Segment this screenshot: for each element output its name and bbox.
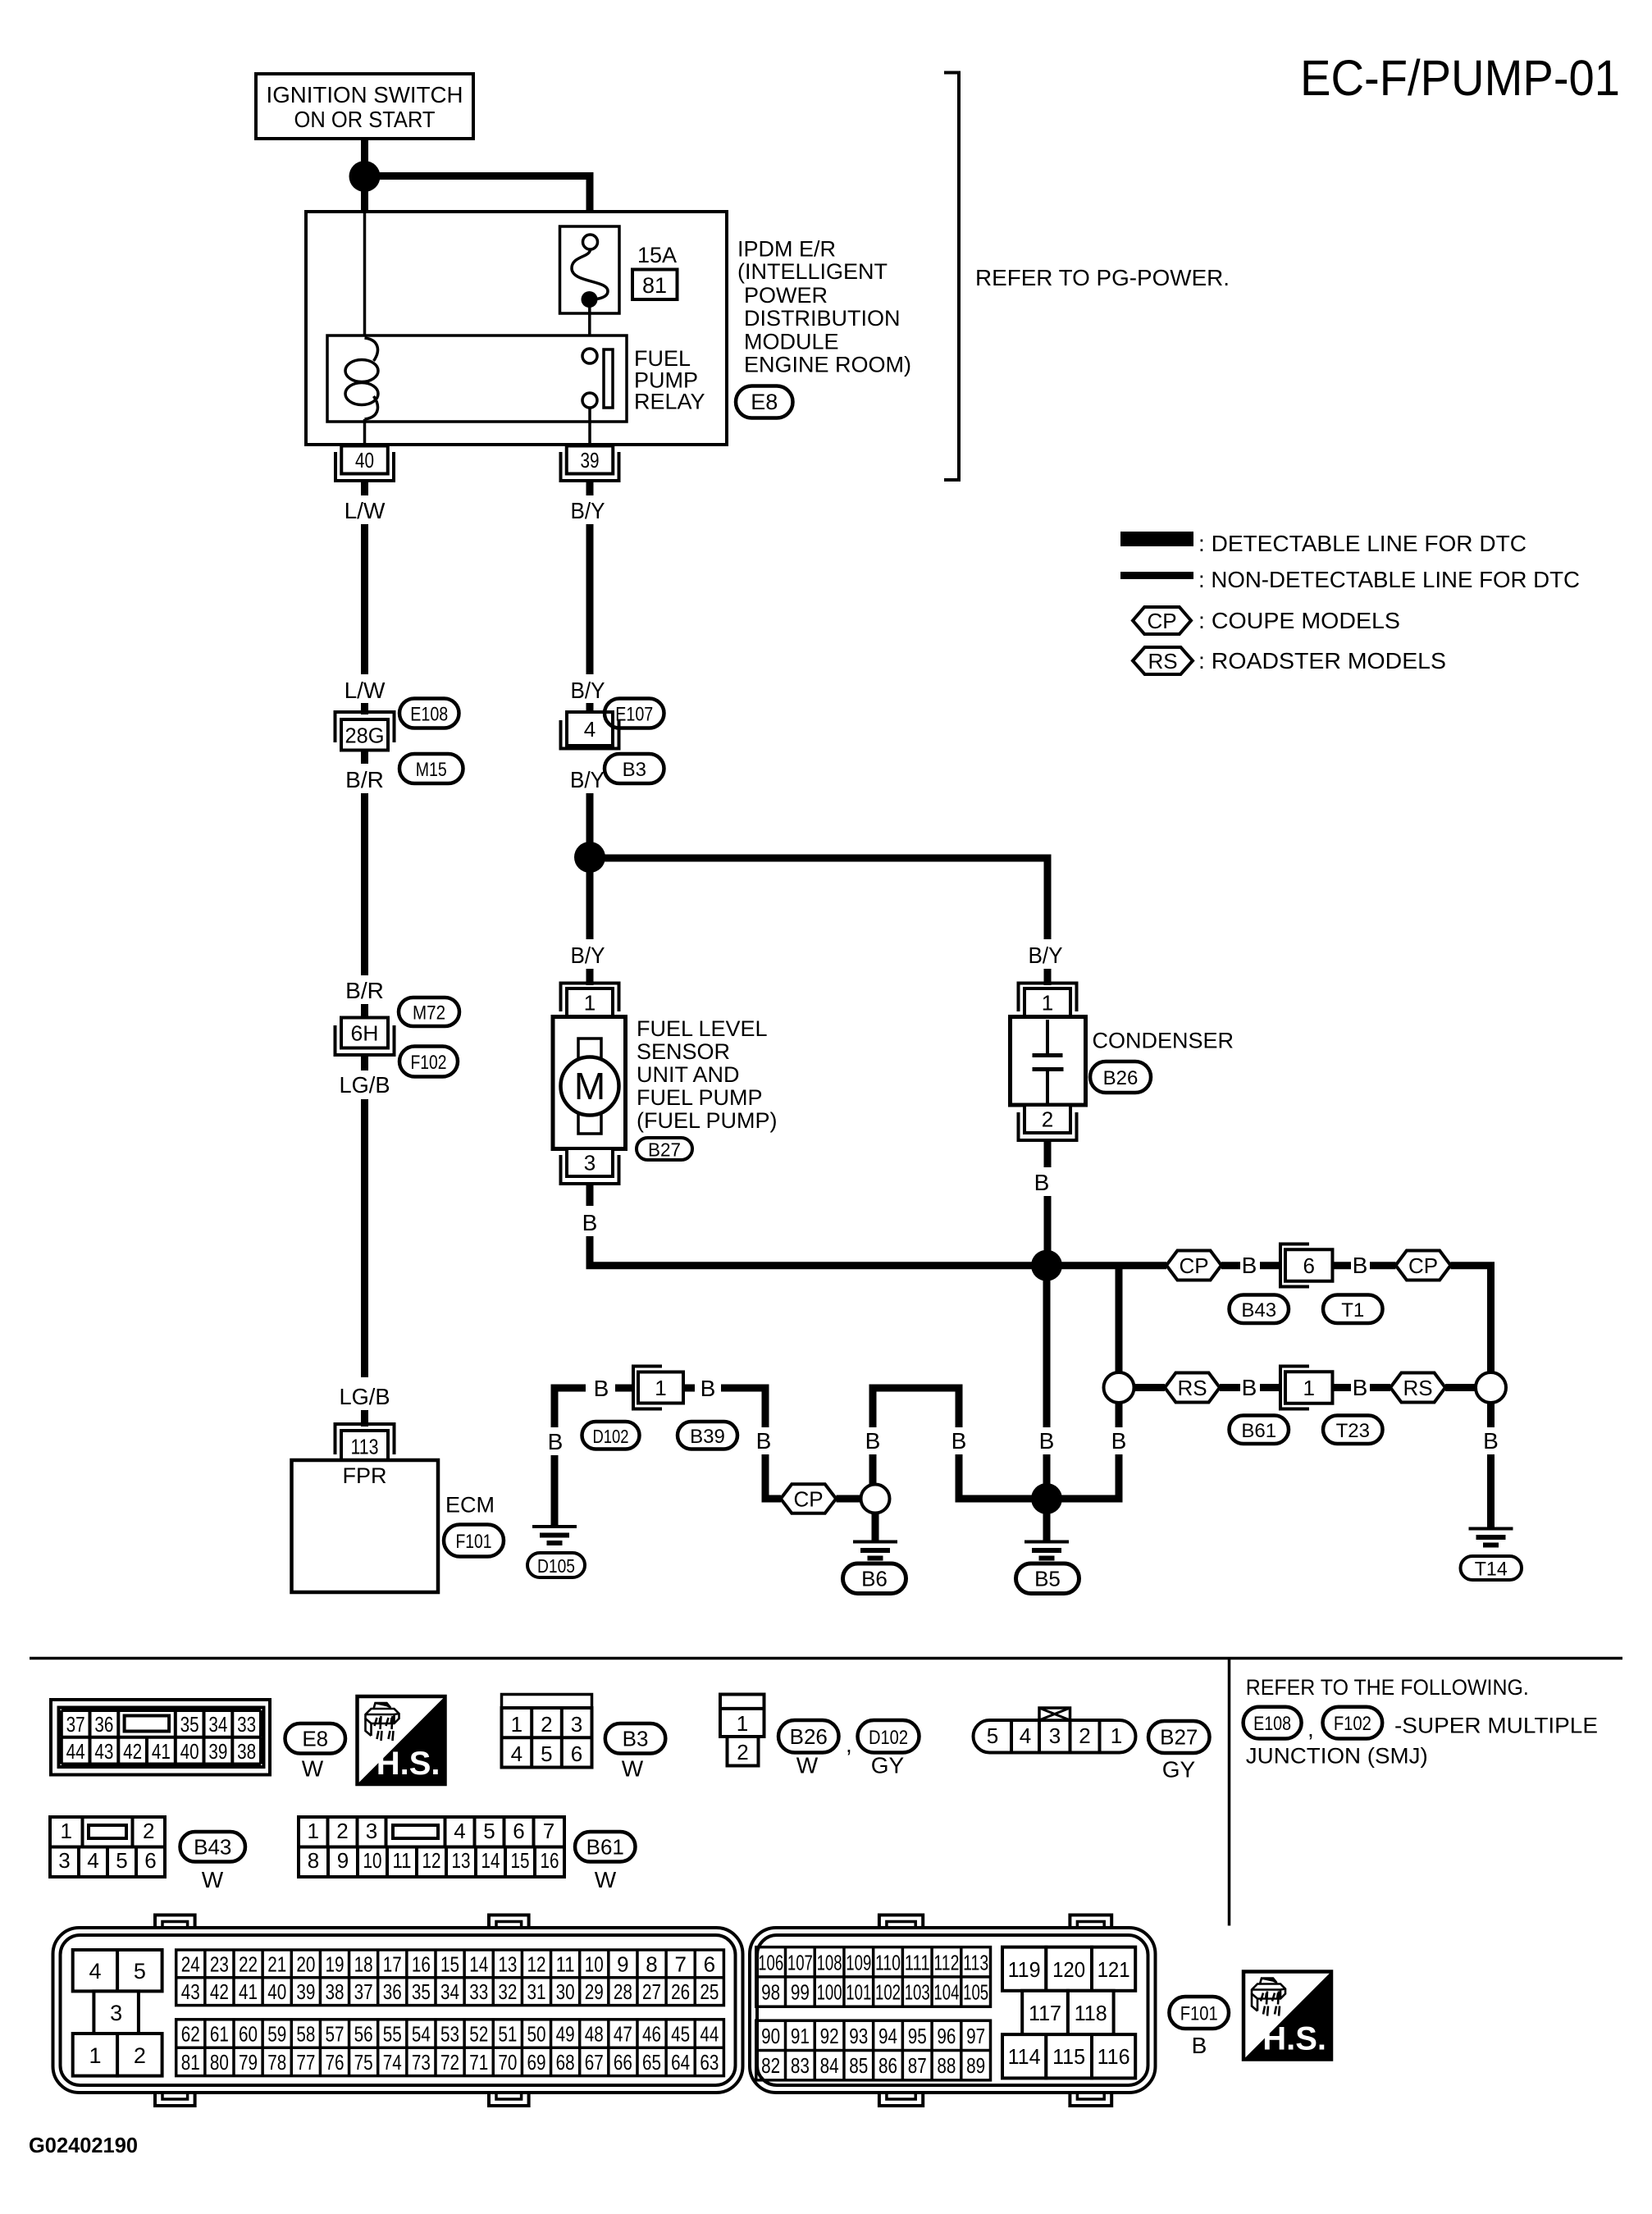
svg-text:2: 2	[541, 1712, 552, 1737]
svg-text:12: 12	[422, 1848, 441, 1873]
condenser body	[1011, 1017, 1086, 1106]
node junction dot B/Y	[574, 842, 605, 873]
svg-text:3: 3	[366, 1819, 377, 1843]
wire B to pin 6	[1260, 1262, 1281, 1269]
wire RS hexagon to B	[1220, 1384, 1240, 1391]
svg-text:57: 57	[325, 2022, 344, 2047]
svg-text:58: 58	[296, 2022, 315, 2047]
wire junction down into IPDM	[361, 190, 368, 213]
svg-text:POWER: POWER	[744, 283, 828, 308]
svg-text:B61: B61	[586, 1834, 624, 1859]
svg-text:15A: 15A	[637, 243, 677, 267]
svg-text:53: 53	[440, 2022, 459, 2047]
svg-text:2: 2	[336, 1819, 348, 1843]
svg-text:B: B	[1039, 1428, 1055, 1454]
svg-text:89: 89	[966, 2053, 985, 2078]
svg-text:B5: B5	[1034, 1566, 1061, 1591]
wire B/R vertical	[361, 793, 368, 975]
svg-text:13: 13	[452, 1848, 471, 1873]
svg-text:DISTRIBUTION: DISTRIBUTION	[744, 306, 901, 331]
wire RS left circle to RS hexagon	[1134, 1384, 1166, 1391]
svg-text:5: 5	[483, 1819, 495, 1843]
svg-text:11: 11	[556, 1952, 575, 1976]
svg-text:D102: D102	[869, 1727, 908, 1749]
motor M circle	[561, 1057, 619, 1116]
node splice circle RS left	[1104, 1372, 1134, 1403]
wire down to T14 ground	[1487, 1454, 1495, 1528]
svg-text:41: 41	[152, 1739, 171, 1764]
svg-text:L/W: L/W	[345, 678, 386, 703]
svg-text:20: 20	[296, 1952, 315, 1976]
wire into ECM pin 113	[361, 1410, 368, 1427]
wire CP right to corner down	[1451, 1266, 1491, 1374]
svg-text:45: 45	[671, 2022, 690, 2047]
svg-text:B26: B26	[1103, 1067, 1139, 1089]
wire to B5 dot	[1043, 1454, 1051, 1485]
legend non-detectable line sample	[1120, 572, 1193, 579]
pin 2 of condenser	[1025, 1105, 1070, 1133]
svg-text:L/W: L/W	[345, 498, 386, 523]
wire CP branch down to RS circle	[1116, 1266, 1123, 1374]
connector M72/F102 6H	[341, 1018, 388, 1048]
connector oval E107	[605, 699, 664, 728]
ECM pin grid 24-6 43-25	[176, 1950, 724, 2006]
ground oval B5	[1016, 1563, 1079, 1594]
svg-text:32: 32	[498, 1979, 517, 2004]
connector oval B3	[605, 754, 664, 783]
svg-text:109: 109	[846, 1950, 871, 1974]
svg-text:39: 39	[581, 448, 600, 472]
svg-text:5: 5	[987, 1723, 998, 1748]
svg-text:1: 1	[1042, 991, 1053, 1016]
hexagon CP left	[1166, 1251, 1221, 1280]
svg-text:31: 31	[527, 1979, 545, 2004]
svg-text:B61: B61	[1241, 1420, 1276, 1442]
wire RS left circle down	[1116, 1403, 1123, 1427]
connector face E8	[51, 1700, 270, 1775]
wire down to D105 ground	[551, 1455, 559, 1526]
svg-text:UNIT AND: UNIT AND	[637, 1062, 740, 1087]
svg-text:48: 48	[585, 2022, 604, 2047]
svg-text:B: B	[1483, 1428, 1499, 1454]
svg-text:41: 41	[239, 1979, 258, 2004]
wire into connector 6H	[361, 1004, 368, 1019]
svg-text:1: 1	[511, 1712, 523, 1737]
wire into pump pin 1	[586, 969, 594, 985]
connector oval B43	[1230, 1295, 1289, 1324]
svg-text:113: 113	[351, 1435, 379, 1459]
legend CP hexagon	[1133, 607, 1191, 634]
svg-text:H.S.: H.S.	[1262, 2021, 1326, 2057]
svg-text:6: 6	[513, 1819, 524, 1843]
connector oval T1	[1323, 1295, 1383, 1324]
svg-text:79: 79	[239, 2050, 258, 2075]
svg-text:86: 86	[878, 2053, 897, 2078]
svg-text:64: 64	[671, 2050, 690, 2075]
svg-text:2: 2	[1079, 1723, 1090, 1748]
svg-text:ON OR START: ON OR START	[294, 107, 436, 132]
svg-text:28: 28	[614, 1979, 632, 2004]
svg-text:FUEL: FUEL	[634, 346, 691, 371]
svg-text:26: 26	[671, 1979, 690, 2004]
svg-text:9: 9	[617, 1952, 628, 1976]
svg-text:B: B	[756, 1428, 772, 1454]
svg-text:1: 1	[655, 1376, 666, 1400]
svg-text:B: B	[1111, 1428, 1127, 1454]
svg-text:85: 85	[849, 2053, 868, 2078]
svg-text:6: 6	[571, 1742, 582, 1766]
connector face B3	[502, 1695, 592, 1709]
svg-text:1: 1	[737, 1711, 748, 1736]
svg-text:110: 110	[875, 1950, 901, 1974]
svg-text:42: 42	[123, 1739, 142, 1764]
wire B5 dot to ground	[1043, 1513, 1051, 1541]
fuel pump brush upper	[578, 1039, 601, 1065]
svg-text:69: 69	[527, 2050, 545, 2075]
svg-text:E108: E108	[410, 704, 448, 726]
svg-text:F102: F102	[411, 1052, 447, 1074]
pin 6 connector B43/T1	[1280, 1244, 1309, 1287]
svg-text:B43: B43	[194, 1834, 231, 1859]
ground oval D105	[527, 1553, 585, 1577]
svg-text:B26: B26	[790, 1724, 828, 1749]
svg-text:78: 78	[267, 2050, 286, 2075]
ground B5	[1025, 1541, 1069, 1544]
svg-text:3: 3	[110, 2001, 122, 2025]
svg-text:61: 61	[210, 2022, 229, 2047]
wire L/W vertical	[361, 524, 368, 674]
svg-text:17: 17	[383, 1952, 402, 1976]
svg-text:: DETECTABLE LINE FOR DTC: : DETECTABLE LINE FOR DTC	[1198, 531, 1527, 556]
fuel pump body	[553, 1017, 626, 1149]
wire out of connector 6H	[361, 1055, 368, 1071]
svg-text:44: 44	[700, 2022, 719, 2047]
connector oval B27	[637, 1138, 692, 1160]
connector oval T23	[1323, 1416, 1383, 1445]
connector face B27	[974, 1720, 1136, 1753]
svg-text:E108: E108	[1253, 1713, 1291, 1735]
svg-text:3: 3	[58, 1848, 70, 1873]
svg-text:30: 30	[556, 1979, 575, 2004]
svg-text:38: 38	[237, 1739, 256, 1764]
svg-text:E107: E107	[615, 704, 653, 726]
svg-text:4: 4	[584, 717, 596, 742]
svg-text:B/Y: B/Y	[1029, 943, 1063, 968]
svg-text:CP: CP	[1147, 609, 1176, 633]
connector oval D102 face	[858, 1720, 920, 1753]
divider line right panel	[1228, 1659, 1231, 1926]
svg-text:CP: CP	[1408, 1253, 1438, 1278]
svg-text:12: 12	[527, 1952, 545, 1976]
svg-text:71: 71	[469, 2050, 488, 2075]
svg-text:37: 37	[66, 1712, 85, 1737]
svg-text:LG/B: LG/B	[340, 1072, 390, 1098]
svg-text:5: 5	[541, 1742, 552, 1766]
svg-text:JUNCTION (SMJ): JUNCTION (SMJ)	[1246, 1744, 1428, 1769]
svg-text:RS: RS	[1177, 1376, 1207, 1400]
svg-text:T14: T14	[1475, 1559, 1508, 1581]
wire pin 39 tail	[586, 481, 594, 495]
wire junction to CP branch	[1047, 1262, 1119, 1269]
wire to corner down leg	[721, 1388, 765, 1427]
svg-text:102: 102	[875, 1980, 901, 2005]
svg-text:GY: GY	[871, 1753, 905, 1778]
pin 1 connector D102/B39	[633, 1367, 662, 1409]
connector oval B26 face	[778, 1720, 839, 1753]
ground D105	[532, 1525, 577, 1528]
ECM pin cells 114-121	[1002, 1947, 1046, 1991]
svg-text:18: 18	[354, 1952, 373, 1976]
svg-text:E8: E8	[751, 390, 778, 414]
svg-text:7: 7	[543, 1819, 554, 1843]
svg-text:94: 94	[878, 2024, 897, 2048]
svg-text:104: 104	[933, 1980, 959, 2005]
svg-text:IPDM E/R: IPDM E/R	[737, 237, 836, 262]
svg-text:116: 116	[1098, 2044, 1130, 2069]
svg-text:B/R: B/R	[345, 978, 384, 1003]
wire bridge left leg lower	[869, 1454, 877, 1485]
svg-text:B27: B27	[648, 1139, 681, 1161]
lock tab with X	[1039, 1708, 1070, 1720]
wire B to RS hexagon right	[1370, 1384, 1390, 1391]
wire corner to D105	[554, 1388, 586, 1427]
svg-text:9: 9	[337, 1848, 349, 1873]
svg-text:114: 114	[1008, 2044, 1041, 2069]
svg-text:23: 23	[210, 1952, 229, 1976]
wire condenser pin 2 tail	[1044, 1140, 1052, 1167]
svg-text:39: 39	[296, 1979, 315, 2004]
wire junction down to fuel pump	[586, 871, 594, 939]
svg-text:16: 16	[412, 1952, 431, 1976]
svg-text:(INTELLIGENT: (INTELLIGENT	[737, 259, 888, 284]
svg-text:CP: CP	[1179, 1253, 1208, 1278]
svg-text:RS: RS	[1148, 649, 1177, 673]
svg-text:1: 1	[60, 1819, 71, 1843]
relay coil	[365, 338, 378, 361]
connector oval B3 face	[605, 1723, 666, 1754]
wire to B5 row from loop	[1061, 1454, 1119, 1499]
connector oval F101	[444, 1525, 504, 1557]
pin 1 connector B61/T23	[1280, 1367, 1309, 1409]
svg-text:120: 120	[1052, 1957, 1085, 1982]
svg-text:7: 7	[674, 1952, 686, 1976]
svg-text:W: W	[595, 1867, 617, 1892]
svg-text:119: 119	[1008, 1957, 1041, 1982]
svg-text:SENSOR: SENSOR	[637, 1039, 730, 1064]
connector oval B39	[678, 1422, 737, 1449]
svg-text:3: 3	[1049, 1723, 1061, 1748]
svg-text:B3: B3	[623, 1726, 649, 1751]
svg-text:B: B	[951, 1428, 967, 1454]
svg-text:E8: E8	[302, 1726, 328, 1751]
svg-text:B: B	[1192, 2033, 1207, 2058]
svg-text:6: 6	[704, 1952, 715, 1976]
svg-text:16: 16	[541, 1848, 559, 1873]
svg-text:52: 52	[469, 2022, 488, 2047]
svg-text:47: 47	[614, 2022, 632, 2047]
svg-text:8: 8	[308, 1848, 319, 1873]
svg-text:FUEL LEVEL: FUEL LEVEL	[637, 1016, 768, 1041]
connector E108/M15 28G	[335, 712, 395, 742]
svg-text:: ROADSTER MODELS: : ROADSTER MODELS	[1198, 648, 1446, 673]
svg-text:75: 75	[354, 2050, 373, 2075]
svg-text:19: 19	[325, 1952, 344, 1976]
wire leg to CP hexagon	[765, 1454, 781, 1499]
svg-text:36: 36	[94, 1712, 113, 1737]
svg-text:: COUPE MODELS: : COUPE MODELS	[1198, 608, 1400, 633]
svg-text:F101: F101	[1180, 2003, 1218, 2025]
wire LG/B vertical	[361, 1099, 368, 1377]
pin 113 of ECM	[335, 1424, 395, 1454]
svg-text:ENGINE ROOM): ENGINE ROOM)	[744, 352, 911, 377]
svg-text:98: 98	[761, 1980, 780, 2005]
svg-text:CONDENSER: CONDENSER	[1093, 1029, 1234, 1053]
svg-text:W: W	[302, 1756, 324, 1782]
svg-text:13: 13	[498, 1952, 517, 1976]
svg-text:35: 35	[412, 1979, 431, 2004]
svg-text:11: 11	[393, 1848, 412, 1873]
wire pump B to bottom junction	[590, 1236, 1034, 1266]
svg-text:,: ,	[1307, 1716, 1314, 1742]
svg-text:IGNITION SWITCH: IGNITION SWITCH	[267, 82, 463, 107]
svg-text:4: 4	[89, 1959, 101, 1983]
wire into connector 4	[586, 703, 594, 715]
wire junction to fuse (detectable)	[365, 176, 591, 227]
svg-text:2: 2	[134, 2043, 146, 2068]
svg-text:REFER TO THE FOLLOWING.: REFER TO THE FOLLOWING.	[1246, 1675, 1529, 1700]
connector face B26 D102	[720, 1695, 764, 1737]
svg-text:B27: B27	[1160, 1725, 1198, 1750]
wire internal coil branch	[363, 212, 367, 338]
svg-text:4: 4	[87, 1848, 98, 1873]
svg-text:103: 103	[905, 1980, 930, 2005]
svg-text:39: 39	[208, 1739, 227, 1764]
svg-text:D102: D102	[593, 1426, 629, 1447]
connector shell ECM left	[155, 1915, 195, 1932]
svg-text:6H: 6H	[351, 1021, 379, 1046]
wire out of connector 28G	[361, 751, 368, 765]
svg-text:65: 65	[642, 2050, 661, 2075]
wire pin 1 to B label	[1333, 1384, 1352, 1391]
svg-text:118: 118	[1075, 2001, 1107, 2025]
svg-text:M72: M72	[413, 1002, 445, 1025]
svg-text:5: 5	[116, 1848, 127, 1873]
svg-text:50: 50	[527, 2022, 545, 2047]
ground B6	[853, 1541, 897, 1544]
pin 1 of fuel pump	[561, 984, 619, 1012]
fuse number box 81	[632, 270, 678, 300]
svg-text:B: B	[865, 1428, 881, 1454]
svg-text:D105: D105	[537, 1555, 575, 1577]
svg-text:4: 4	[1020, 1723, 1031, 1748]
svg-text:G02402190: G02402190	[29, 2133, 138, 2157]
relay contact upper	[582, 349, 597, 363]
connector oval M15	[399, 754, 463, 783]
svg-text:40: 40	[355, 448, 374, 472]
module box ECM	[292, 1460, 439, 1592]
wire B to connector 1	[615, 1385, 633, 1392]
pin 3 of fuel pump	[567, 1148, 613, 1176]
node bottom junction dot	[1031, 1250, 1062, 1281]
pin 1 of condenser	[1019, 984, 1077, 1012]
relay armature bar	[604, 349, 613, 408]
ground oval T14	[1461, 1556, 1522, 1580]
svg-text:4: 4	[454, 1819, 465, 1843]
ECM pin grid 106-113 98-105	[756, 1947, 991, 2007]
svg-text:F102: F102	[1334, 1713, 1371, 1735]
svg-text:68: 68	[556, 2050, 575, 2075]
svg-text:55: 55	[383, 2022, 402, 2047]
separator line	[30, 1657, 1622, 1660]
svg-text:W: W	[622, 1756, 644, 1782]
svg-text:B3: B3	[623, 759, 646, 781]
connector oval E8	[736, 386, 793, 418]
svg-text:59: 59	[267, 2022, 286, 2047]
wire ignition switch to junction	[361, 139, 368, 163]
ECM pin grid 90-97 82-89	[756, 2020, 991, 2080]
svg-text:95: 95	[908, 2024, 927, 2048]
connector oval B43 face	[180, 1832, 246, 1862]
node junction dot below ignition switch	[349, 161, 381, 192]
connector oval D102	[582, 1422, 640, 1449]
svg-text:81: 81	[642, 273, 667, 298]
wire connector 4 to junction	[586, 793, 594, 845]
node junction dot B5	[1031, 1483, 1062, 1514]
svg-text:T23: T23	[1336, 1420, 1370, 1442]
wire CP to B label	[1221, 1262, 1240, 1269]
hexagon CP right	[1396, 1251, 1451, 1280]
svg-text:93: 93	[849, 2024, 868, 2048]
svg-text:25: 25	[700, 1979, 719, 2004]
svg-text:74: 74	[383, 2050, 402, 2075]
svg-text:B: B	[1353, 1375, 1368, 1400]
svg-text:51: 51	[498, 2022, 517, 2047]
svg-text:49: 49	[556, 2022, 575, 2047]
connector oval E108 reference	[1244, 1707, 1302, 1739]
svg-text:B/Y: B/Y	[571, 498, 605, 523]
svg-text:F101: F101	[456, 1531, 492, 1553]
svg-text:M: M	[574, 1065, 605, 1107]
connector face B61	[299, 1817, 564, 1877]
wire relay to pin 39	[588, 408, 591, 447]
svg-text:B43: B43	[1241, 1299, 1276, 1322]
svg-text:92: 92	[820, 2024, 839, 2048]
wire pin 40 tail	[361, 481, 368, 495]
svg-text:36: 36	[383, 1979, 402, 2004]
connector oval B26	[1090, 1061, 1151, 1093]
svg-text:B: B	[548, 1429, 564, 1454]
svg-text:22: 22	[239, 1952, 258, 1976]
ECM small pin grid 1-5	[73, 1950, 117, 1991]
svg-text:M15: M15	[416, 759, 447, 781]
svg-text:MODULE: MODULE	[744, 329, 839, 354]
svg-text:88: 88	[937, 2053, 956, 2078]
wire fuse to relay contact	[588, 305, 591, 350]
svg-text:B/Y: B/Y	[570, 767, 605, 792]
wire junction to condenser (detectable)	[590, 858, 1047, 939]
relay box fuel pump relay	[327, 336, 627, 422]
svg-text:10: 10	[585, 1952, 604, 1976]
wire pin 6 to B label	[1333, 1262, 1352, 1269]
wire coil to pin 40	[363, 419, 367, 447]
bracket refer to PG-POWER	[944, 73, 959, 481]
svg-text:1: 1	[1303, 1376, 1314, 1400]
svg-text:99: 99	[791, 1980, 810, 2005]
svg-text:43: 43	[94, 1739, 113, 1764]
wire CP hexagon to B6 circle	[837, 1495, 861, 1503]
svg-text:73: 73	[412, 2050, 431, 2075]
svg-text:15: 15	[440, 1952, 459, 1976]
